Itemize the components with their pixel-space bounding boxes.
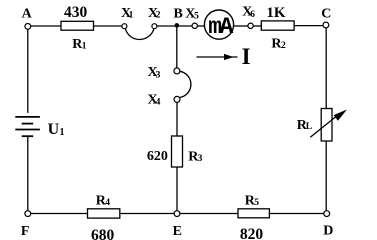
svg-text:820: 820 — [240, 226, 264, 240]
svg-text:430: 430 — [64, 4, 88, 21]
svg-text:2: 2 — [156, 11, 161, 21]
svg-text:mA: mA — [208, 14, 233, 40]
svg-text:5: 5 — [254, 198, 259, 208]
svg-text:3: 3 — [156, 70, 161, 80]
svg-text:U: U — [48, 121, 60, 138]
svg-text:F: F — [21, 224, 30, 239]
svg-text:E: E — [173, 224, 182, 239]
svg-text:C: C — [321, 6, 331, 21]
svg-text:1K: 1K — [266, 5, 286, 21]
svg-text:4: 4 — [105, 198, 110, 208]
svg-text:680: 680 — [91, 227, 115, 240]
svg-text:1: 1 — [129, 11, 134, 21]
svg-text:1: 1 — [82, 41, 87, 51]
svg-text:2: 2 — [281, 41, 286, 51]
svg-text:L: L — [306, 122, 312, 132]
svg-text:I: I — [242, 44, 251, 69]
svg-text:B: B — [174, 6, 183, 21]
svg-text:1: 1 — [60, 127, 65, 138]
svg-text:6: 6 — [250, 10, 255, 20]
svg-text:D: D — [323, 223, 333, 238]
svg-text:4: 4 — [156, 98, 161, 108]
svg-text:3: 3 — [198, 154, 203, 164]
svg-text:A: A — [22, 7, 33, 22]
svg-text:620: 620 — [147, 149, 168, 164]
svg-text:5: 5 — [194, 12, 199, 22]
